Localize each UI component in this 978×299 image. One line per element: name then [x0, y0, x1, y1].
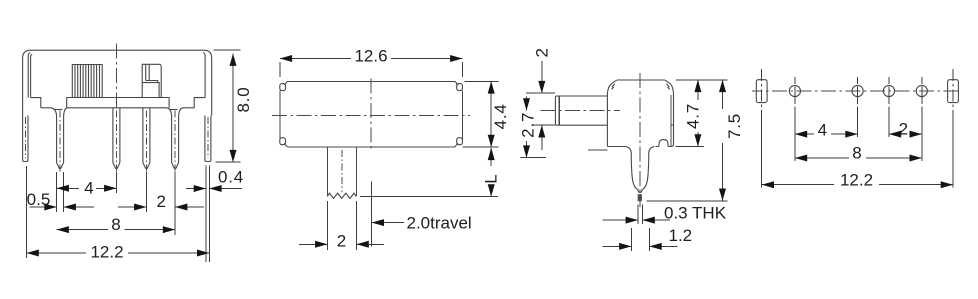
- right step: [194, 98, 205, 108]
- inner right frame line: [203, 53, 205, 98]
- dim 4: [57, 187, 79, 189]
- svg-text:2: 2: [337, 231, 346, 250]
- hole 1: [789, 85, 800, 96]
- right slot centerline + ext: [952, 69, 954, 188]
- ext pin tip: [646, 200, 727, 202]
- dim 8: [57, 229, 108, 231]
- corner tab TL: [280, 84, 286, 91]
- body top edge: [617, 79, 665, 81]
- ext seating left: [521, 157, 547, 159]
- stem centerline: [341, 150, 343, 192]
- knob: [555, 96, 607, 125]
- stem break zigzag: [327, 193, 356, 198]
- svg-text:8: 8: [852, 143, 861, 162]
- corner tab TR: [457, 84, 463, 91]
- pin 4 shoulder: [167, 108, 172, 116]
- dim 4.4: [490, 81, 492, 147]
- dim 4: [795, 133, 814, 135]
- stopper stub: [142, 64, 161, 97]
- knob hatch lines: [75, 65, 100, 98]
- body bottom edge: [287, 146, 454, 148]
- body right edge: [461, 91, 463, 140]
- pin 1 root line: [55, 109, 63, 111]
- body right edge: [665, 80, 674, 146]
- vertical centerline: [370, 79, 372, 151]
- pin blade: [626, 147, 655, 193]
- dim L: [490, 148, 492, 166]
- top plate: [67, 98, 169, 108]
- body left edge: [279, 91, 281, 140]
- seating step line: [588, 149, 607, 151]
- left step: [31, 98, 41, 108]
- pin 1 shoulder: [51, 108, 56, 116]
- pin 3: [143, 108, 150, 169]
- dim 0.5: [30, 206, 57, 208]
- svg-text:2: 2: [533, 48, 552, 57]
- bottom notch: [659, 140, 668, 147]
- svg-text:1.2: 1.2: [669, 226, 693, 245]
- right edge tick: [671, 124, 674, 126]
- pin 1 centerline: [59, 111, 61, 173]
- ext pin root width: [630, 228, 632, 251]
- row centerline: [752, 90, 962, 92]
- dim 12.2: [762, 184, 834, 186]
- svg-text:2: 2: [156, 192, 165, 211]
- stem sides: [326, 147, 328, 196]
- corner tab BL: [280, 138, 286, 145]
- svg-text:0.5: 0.5: [27, 190, 51, 209]
- knob hatched: [72, 65, 102, 98]
- svg-text:12.2: 12.2: [840, 171, 873, 190]
- svg-text:2: 2: [899, 119, 908, 138]
- svg-text:8.0: 8.0: [234, 86, 253, 112]
- extension lines: [26, 166, 28, 258]
- left slot hole: [756, 80, 767, 103]
- corner tab BR: [457, 138, 463, 145]
- svg-text:4: 4: [84, 179, 93, 198]
- body centerline: [639, 73, 641, 207]
- body bottom edge right end: [668, 146, 671, 148]
- dim 12.2: [27, 252, 87, 254]
- inner right edge: [670, 95, 672, 147]
- dim 2.7: [526, 97, 528, 111]
- hole 4: [916, 85, 927, 96]
- dim 4.7: [697, 80, 699, 100]
- dim 8: [795, 157, 849, 159]
- svg-text:4.4: 4.4: [491, 103, 510, 129]
- dim 8.0 vertical: [232, 54, 234, 163]
- top-left corner step: [612, 84, 615, 90]
- pin 4 centerline: [174, 111, 176, 173]
- pin 4: [172, 116, 179, 168]
- left leg centerline: [24, 117, 26, 158]
- svg-text:12.2: 12.2: [90, 242, 123, 261]
- body centerline: [115, 44, 117, 114]
- dim 2: [118, 206, 146, 208]
- svg-text:7.5: 7.5: [725, 113, 744, 139]
- svg-text:4.7: 4.7: [684, 103, 703, 129]
- svg-text:2.7: 2.7: [519, 112, 538, 138]
- body top edge: [287, 80, 454, 82]
- right mounting leg: [205, 116, 211, 162]
- dim 1.2: [603, 245, 632, 247]
- dim 2.0travel leader: [372, 222, 404, 224]
- body outline top: [23, 50, 212, 115]
- hole 2: [852, 85, 863, 96]
- svg-text:0.4: 0.4: [218, 168, 244, 187]
- body left edge: [607, 80, 616, 146]
- pin 4 root line: [170, 109, 178, 111]
- left mounting leg: [23, 116, 28, 162]
- knob end cap: [558, 96, 560, 125]
- dim 2: [299, 243, 327, 245]
- ext knob top: [526, 92, 555, 94]
- body bottom edge right: [656, 146, 660, 148]
- knob centerline: [541, 110, 621, 112]
- top-right corner step: [666, 84, 669, 90]
- pin 3 centerline: [145, 111, 147, 173]
- svg-text:2.0travel: 2.0travel: [407, 214, 472, 233]
- ext pin thickness: [637, 205, 639, 225]
- body bottom edge left: [607, 146, 625, 148]
- svg-text:12.6: 12.6: [354, 47, 387, 66]
- pin 1: [57, 116, 64, 168]
- ext body top right: [676, 79, 728, 81]
- inner left frame lines: [28, 53, 30, 98]
- pin blade tip (dark): [638, 194, 642, 201]
- svg-text:8: 8: [111, 215, 120, 234]
- extension lines: [279, 62, 281, 77]
- ext body bottom right: [676, 146, 704, 148]
- hole 3: [883, 85, 894, 96]
- left slot centerline + ext: [761, 69, 763, 188]
- svg-text:4: 4: [818, 120, 827, 139]
- pin 2 centerline: [115, 111, 117, 173]
- dim 7.5: [722, 80, 724, 109]
- ext knob bottom: [533, 124, 555, 126]
- dim 2: [889, 133, 895, 135]
- body bottom edge: [41, 107, 52, 109]
- right slot hole: [948, 80, 959, 103]
- right leg centerline: [207, 117, 209, 158]
- dim 2 (knob height): [541, 61, 543, 93]
- svg-text:0.3 THK: 0.3 THK: [664, 204, 727, 223]
- horizontal centerline: [272, 114, 470, 116]
- svg-text:L: L: [482, 174, 501, 183]
- dim 12.6: [280, 58, 351, 60]
- dim 0.4: [186, 188, 206, 190]
- pin 2: [113, 108, 120, 169]
- dim 0.3 THK: [603, 219, 638, 221]
